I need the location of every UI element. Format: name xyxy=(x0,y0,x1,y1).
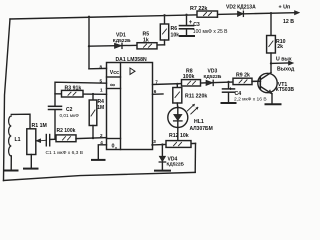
svg-text:R3 91k: R3 91k xyxy=(65,86,82,92)
wire pin1 / R3 line xyxy=(55,93,107,96)
svg-text:1: 1 xyxy=(100,88,103,93)
wire vcc drop to VD1 and pin8 xyxy=(88,17,90,69)
svg-text:6: 6 xyxy=(154,89,157,94)
svg-text:5: 5 xyxy=(100,78,103,83)
svg-text:VD3: VD3 xyxy=(208,68,218,74)
svg-text:DA1 LM358N: DA1 LM358N xyxy=(116,57,147,63)
wire R12 down xyxy=(194,143,196,172)
node rail-C3 xyxy=(185,14,187,16)
ground R1 xyxy=(24,168,38,170)
svg-text:v: v xyxy=(115,146,117,150)
node R11 tap xyxy=(176,83,178,85)
svg-text:100k: 100k xyxy=(183,74,195,80)
svg-text:3: 3 xyxy=(153,139,156,144)
resistor R11 xyxy=(173,84,182,107)
node C4 tap xyxy=(227,81,229,83)
svg-text:U вых: U вых xyxy=(276,56,292,62)
svg-text:4: 4 xyxy=(100,140,103,145)
resistor R7 xyxy=(197,11,218,17)
wire VD1-R5 line xyxy=(89,45,165,46)
wire pin7 line xyxy=(153,81,261,84)
svg-text:КД522Б: КД522Б xyxy=(204,74,222,80)
svg-text:КТ503В: КТ503В xyxy=(276,87,295,93)
resistor R10 xyxy=(267,13,276,72)
svg-text:Vcc: Vcc xyxy=(110,70,119,76)
svg-text:+: + xyxy=(229,86,232,92)
wire output xyxy=(271,62,289,64)
svg-text:АЛ307БМ: АЛ307БМ xyxy=(190,126,213,132)
node VD1 tap xyxy=(88,45,90,47)
svg-text:Выход: Выход xyxy=(277,66,295,72)
wire +12V top rail xyxy=(10,13,295,19)
svg-text:12 В: 12 В xyxy=(283,19,294,25)
svg-text:+ Uп: + Uп xyxy=(279,4,291,10)
diode VD1 xyxy=(115,43,123,48)
ground VD4 xyxy=(155,170,170,172)
svg-text:C3: C3 xyxy=(193,22,200,28)
svg-text:2: 2 xyxy=(100,133,103,138)
svg-text:8: 8 xyxy=(100,65,103,70)
resistor R3 xyxy=(62,90,84,97)
node rail-VD1 xyxy=(88,16,90,18)
ground C3 xyxy=(180,35,194,37)
resistor R9 xyxy=(233,78,252,84)
svg-text:R11 220k: R11 220k xyxy=(185,93,207,99)
node R4 bottom xyxy=(92,137,94,139)
frame left border xyxy=(4,19,11,181)
resistor R12 xyxy=(166,141,191,148)
node VD4 tap xyxy=(161,143,163,145)
inductor L1 xyxy=(9,114,30,170)
capacitor C1 xyxy=(46,135,56,146)
svg-text:R12 10k: R12 10k xyxy=(169,133,189,139)
svg-text:VD2 КД213А: VD2 КД213А xyxy=(226,5,256,11)
svg-text:C1 1 мкФ х 6,3 В: C1 1 мкФ х 6,3 В xyxy=(46,150,84,156)
svg-text:10k: 10k xyxy=(171,33,180,39)
frame bottom border / return wire xyxy=(4,172,196,180)
wire pin4 to ground xyxy=(98,145,106,160)
svg-text:7: 7 xyxy=(155,79,158,84)
ground C4 xyxy=(222,102,236,104)
svg-text:C4: C4 xyxy=(235,91,242,97)
ground pin4 xyxy=(92,159,105,161)
svg-text:R9 2k: R9 2k xyxy=(236,73,250,79)
wire pin3 line xyxy=(152,143,196,145)
svg-text:L1: L1 xyxy=(15,137,21,143)
capacitor C3 xyxy=(180,15,194,36)
diode VD3 xyxy=(206,80,213,85)
svg-text:+: + xyxy=(189,20,193,26)
pin6 stub xyxy=(153,93,164,95)
svg-text:КД522Б: КД522Б xyxy=(167,161,185,166)
node rail-R10 xyxy=(270,12,272,14)
resistor R6 xyxy=(160,15,168,45)
svg-text:0,01 мкФ: 0,01 мкФ xyxy=(60,113,80,118)
svg-text:R4: R4 xyxy=(98,99,105,105)
svg-text:100 мкФ х 25 В: 100 мкФ х 25 В xyxy=(193,29,228,35)
svg-text:1k: 1k xyxy=(143,37,149,43)
svg-text:R6: R6 xyxy=(171,26,178,32)
svg-text:R7 22k: R7 22k xyxy=(190,6,207,12)
capacitor C4 xyxy=(223,82,235,103)
svg-text:R1 1M: R1 1M xyxy=(32,123,47,129)
transistor VT1 xyxy=(252,73,277,104)
resistor R8 xyxy=(182,80,201,86)
svg-text:HL1: HL1 xyxy=(194,119,204,125)
wire pin8 xyxy=(89,67,107,69)
wire pin5 xyxy=(55,82,107,105)
resistor R4 xyxy=(89,94,97,138)
output arrow xyxy=(289,61,294,65)
diode VD2 xyxy=(238,11,244,16)
diode VD4 xyxy=(159,145,165,171)
node R4 top xyxy=(92,93,94,95)
svg-text:VD1: VD1 xyxy=(116,33,126,39)
resistor R5 xyxy=(137,43,157,49)
svg-text:КД522Б: КД522Б xyxy=(113,38,131,44)
svg-text:2,2 мкФ х 16 В: 2,2 мкФ х 16 В xyxy=(234,97,267,103)
svg-text:2k: 2k xyxy=(277,44,283,50)
op-amp DA1 box xyxy=(107,63,153,150)
LED HL1 xyxy=(168,104,198,140)
node output tap xyxy=(270,62,272,64)
node rail-R6 xyxy=(163,14,165,16)
capacitor C2 xyxy=(49,106,62,139)
svg-text:R2 100k: R2 100k xyxy=(57,128,76,134)
svg-text:∞: ∞ xyxy=(110,82,115,89)
ground VT1 emitter xyxy=(266,103,281,105)
resistor R2 xyxy=(56,135,107,142)
+Un arrow xyxy=(295,11,300,15)
potentiometer R1 xyxy=(27,129,47,168)
ground L1 xyxy=(5,170,18,172)
svg-text:1M: 1M xyxy=(97,105,104,111)
